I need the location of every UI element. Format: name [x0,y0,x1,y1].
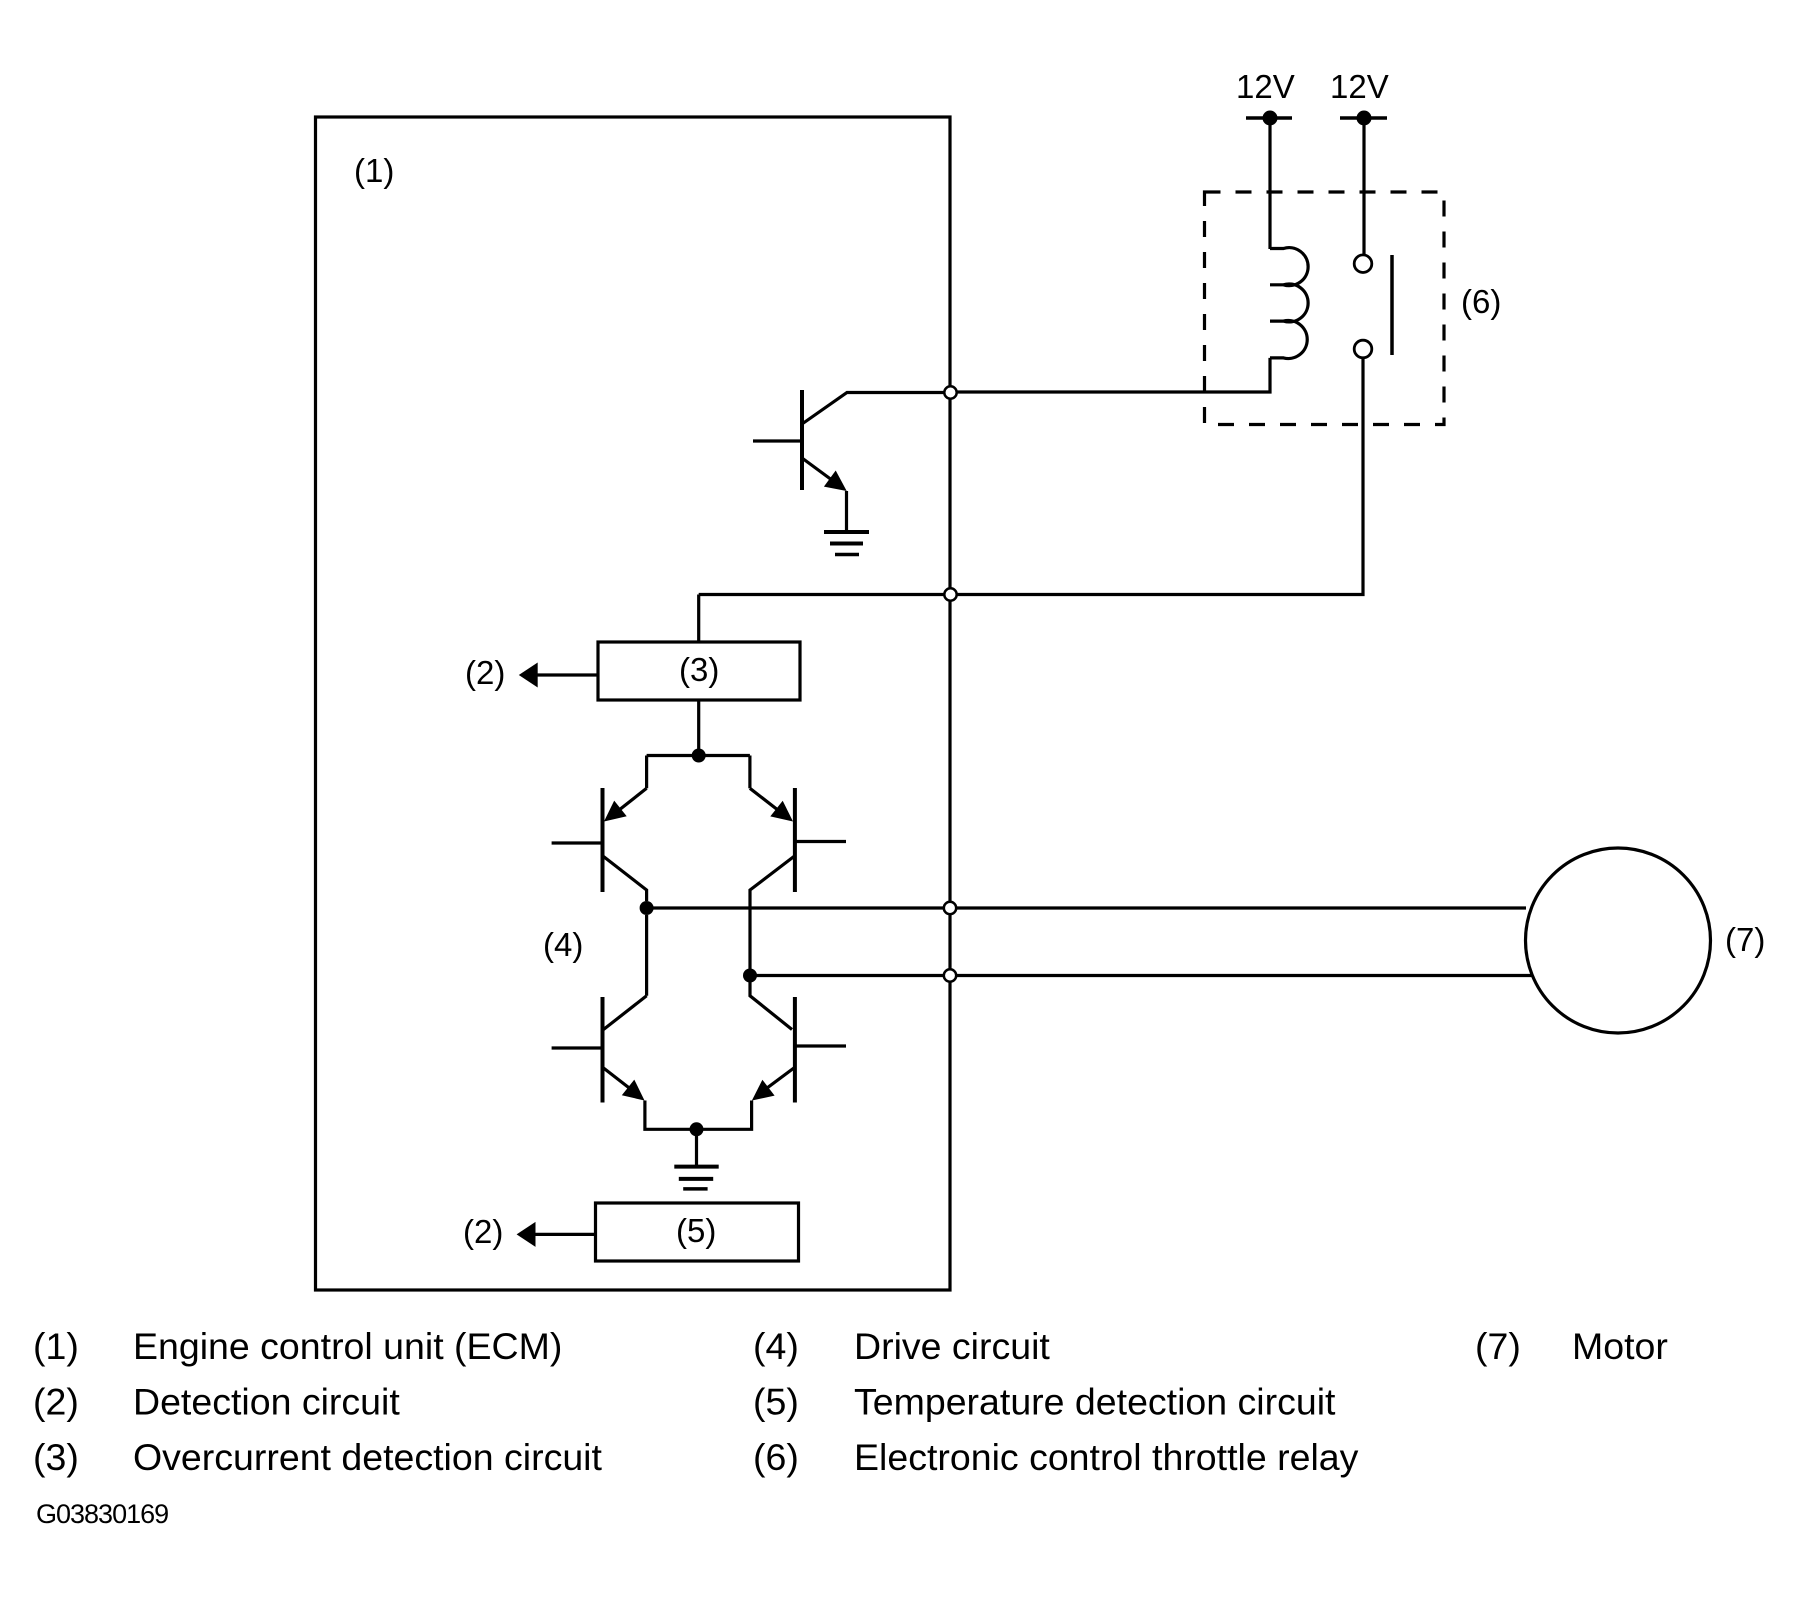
transistor T2 lower diagonal [750,857,794,970]
arrow line to (2) upper [536,673,598,676]
relay dashed box (6) [1205,192,1445,425]
transistor T3 collector drop [645,915,648,996]
svg-text:G03830169: G03830169 [36,1499,168,1529]
transistor Q1 bar [800,390,804,490]
svg-text:(3): (3) [679,651,719,688]
svg-text:Temperature detection circuit: Temperature detection circuit [854,1381,1336,1423]
upper motor wire [647,906,1526,909]
arrow line to (2) lower [534,1233,596,1236]
transistor T4 upper diagonal [750,982,792,1030]
junction dot D4 [690,1122,704,1136]
wire into box 3 [697,595,700,643]
transistor T3 upper diagonal [604,996,647,1030]
relay switch blade [1390,255,1394,355]
relay upper contact circle [1354,255,1372,273]
motor circle (7) [1526,848,1711,1033]
wire 12V-2 down to contact [1362,118,1365,255]
wire Q1 emitter to ground [845,491,848,531]
transistor T1 lower diagonal [604,857,647,902]
wire 12V-2 bat bar [1340,116,1387,120]
svg-text:Detection circuit: Detection circuit [133,1381,400,1423]
svg-text:(7): (7) [1475,1325,1521,1367]
transistor T4 emitter diagonal [759,1068,794,1094]
junction dot 12V-1 [1263,111,1278,126]
node N1 open circle [944,386,956,398]
svg-text:(4): (4) [753,1325,799,1367]
transistor T1 emitter diagonal [614,788,647,814]
wire 12V-1 bat bar [1246,116,1292,120]
transistor T1 bar [601,788,605,892]
arrowhead Q1 emitter [824,471,847,492]
wire box3 to node D1 [697,700,700,755]
transistor T3 base wire [552,1046,603,1049]
svg-text:(4): (4) [543,926,583,963]
junction dot D1 [692,749,706,763]
transistor Q1 base wire [753,439,802,442]
transistor T2 collector drop [748,756,751,789]
svg-text:Electronic control throttle re: Electronic control throttle relay [854,1436,1359,1478]
arrowhead T1 emitter [604,801,627,822]
arrowhead to (2) upper [519,663,538,688]
transistor Q1 emitter [802,458,840,486]
svg-text:(5): (5) [753,1381,799,1423]
wire D4 to ground [695,1129,698,1165]
node N2 open circle [944,588,956,600]
temperature detection box (5) [596,1203,799,1261]
svg-text:(3): (3) [33,1436,79,1478]
wire top rail of H-bridge [647,754,750,757]
transistor T3 emitter diagonal [604,1068,638,1094]
overcurrent detection box (3) [598,642,800,700]
transistor T2 bar [793,788,797,892]
relay lower contact circle [1354,340,1372,358]
svg-text:(6): (6) [753,1436,799,1478]
junction dot D3 [743,969,757,983]
svg-text:(1): (1) [354,152,394,189]
wire 12V-1 down to coil [1268,118,1271,249]
svg-text:12V: 12V [1236,68,1295,105]
wire coil bottom to node A [951,358,1271,392]
svg-text:(2): (2) [465,654,505,691]
transistor T1 base wire [552,841,603,844]
svg-text:(1): (1) [33,1325,79,1367]
lower motor wire [750,974,1532,977]
arrowhead T4 emitter [752,1080,775,1101]
svg-text:Motor: Motor [1572,1325,1668,1367]
arrowhead T3 emitter [622,1080,645,1101]
junction dot 12V-2 [1357,111,1372,126]
junction dot D2 [640,901,654,915]
svg-text:(2): (2) [463,1213,503,1250]
wire lower contact down and left to node B [699,358,1363,594]
svg-text:12V: 12V [1330,68,1389,105]
transistor T4 bar [793,997,797,1103]
wire T3 emitter down to bottom rail [645,1101,690,1130]
transistor T2 emitter diagonal [750,788,783,814]
svg-text:(2): (2) [33,1381,79,1423]
svg-text:Drive circuit: Drive circuit [854,1325,1050,1367]
ground symbol GND1 [824,532,869,555]
transistor T3 bar [601,997,605,1103]
ground symbol GND2 [674,1167,718,1189]
svg-text:Engine control unit (ECM): Engine control unit (ECM) [133,1325,562,1367]
svg-text:(5): (5) [676,1212,716,1249]
svg-text:(7): (7) [1725,921,1765,958]
relay coil L1 [1270,248,1308,359]
arrowhead to (2) lower [517,1222,536,1247]
transistor T1 collector drop [645,756,648,789]
node N3 open circle [944,902,956,914]
svg-text:Overcurrent detection circuit: Overcurrent detection circuit [133,1436,603,1478]
transistor T4 base wire [795,1044,846,1047]
wire T4 emitter down to bottom rail [703,1101,752,1130]
ECM box (1) [316,117,951,1290]
transistor T2 base wire [795,840,846,843]
node N4 open circle [944,969,956,981]
svg-text:(6): (6) [1461,283,1501,320]
arrowhead T2 emitter [770,801,793,822]
transistor Q1 collector [802,393,950,425]
